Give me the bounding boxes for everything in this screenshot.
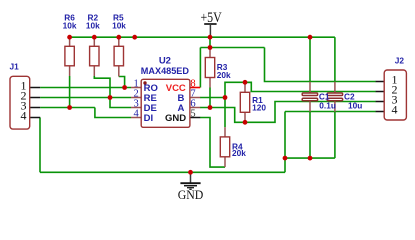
- svg-text:120: 120: [252, 103, 266, 113]
- svg-text:GND: GND: [165, 113, 186, 124]
- svg-text:U2: U2: [159, 56, 171, 67]
- svg-text:10k: 10k: [63, 21, 77, 31]
- svg-text:10k: 10k: [86, 21, 100, 31]
- svg-text:20k: 20k: [217, 70, 231, 80]
- svg-text:10k: 10k: [112, 21, 126, 31]
- svg-text:20k: 20k: [232, 148, 246, 158]
- svg-text:J2: J2: [395, 55, 405, 65]
- svg-text:DI: DI: [144, 113, 154, 124]
- svg-text:0.1u: 0.1u: [319, 100, 336, 110]
- svg-text:5: 5: [190, 108, 195, 119]
- svg-text:4: 4: [21, 108, 27, 122]
- svg-text:J1: J1: [10, 61, 20, 71]
- svg-text:10u: 10u: [348, 100, 362, 110]
- svg-text:4: 4: [392, 102, 398, 116]
- svg-text:4: 4: [134, 108, 140, 119]
- svg-text:MAX485ED: MAX485ED: [141, 66, 189, 77]
- svg-text:GND: GND: [178, 188, 204, 202]
